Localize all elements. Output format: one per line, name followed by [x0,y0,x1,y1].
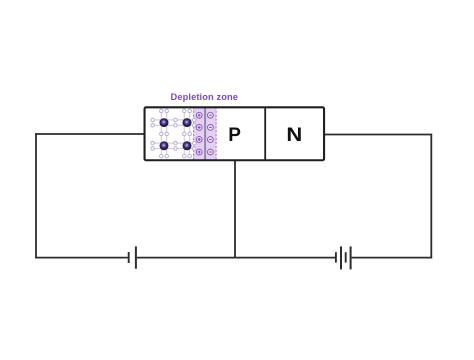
positive ion 1 [196,112,202,118]
lattice bond lines [153,111,195,156]
atom A3 [160,141,169,150]
depletion zone right dashed boundary [215,107,217,161]
battery V1 positive plate (long) [135,246,137,268]
semiconductor block border [145,107,324,160]
battery V2 negative plate 1 (short) [335,252,337,262]
depletion zone region background [193,107,216,161]
depletion zone left dashed boundary [193,107,195,161]
wire: left rail top segment (P side to left) [35,133,144,135]
svg-text:N: N [286,125,302,146]
wire: bottom rail, battery V2 to right corner [352,257,433,259]
negative ion 3 [208,137,214,143]
semiconductor block body fill [145,107,324,160]
P/N junction divider [264,107,266,161]
atom A4 [183,141,192,150]
wire: right rail vertical [430,134,432,259]
negative ion 1 [208,112,214,118]
lattice electron pairs (small circles) [151,109,196,158]
positive ion 4 [196,149,202,155]
wire: bottom rail, corner to battery V1 [35,257,128,259]
wire: left rail vertical [35,133,37,258]
positive ion 3 [196,137,202,143]
wire: bottom rail, middle junction to battery V2 [235,257,335,259]
battery V2 positive plate 1 (long) [340,246,342,269]
wire: right rail top segment (to N side) [325,134,433,136]
negative ion 4 [208,149,214,155]
wire: middle tap vertical (P region to bottom rail) [234,160,236,259]
svg-text:P: P [228,125,241,146]
battery V2 negative plate 2 (short) [345,252,347,262]
svg-text:Depletion zone: Depletion zone [171,92,239,102]
positive ion 2 [196,125,202,131]
negative ion 2 [208,125,214,131]
wire: bottom rail, battery V1 to middle junction [137,257,235,259]
atom A1 [160,118,169,127]
depletion zone junction bar [204,107,206,161]
battery V1 negative plate (short) [128,252,130,263]
battery V2 positive plate 2 (long) [350,246,352,269]
atom A2 [183,118,192,127]
